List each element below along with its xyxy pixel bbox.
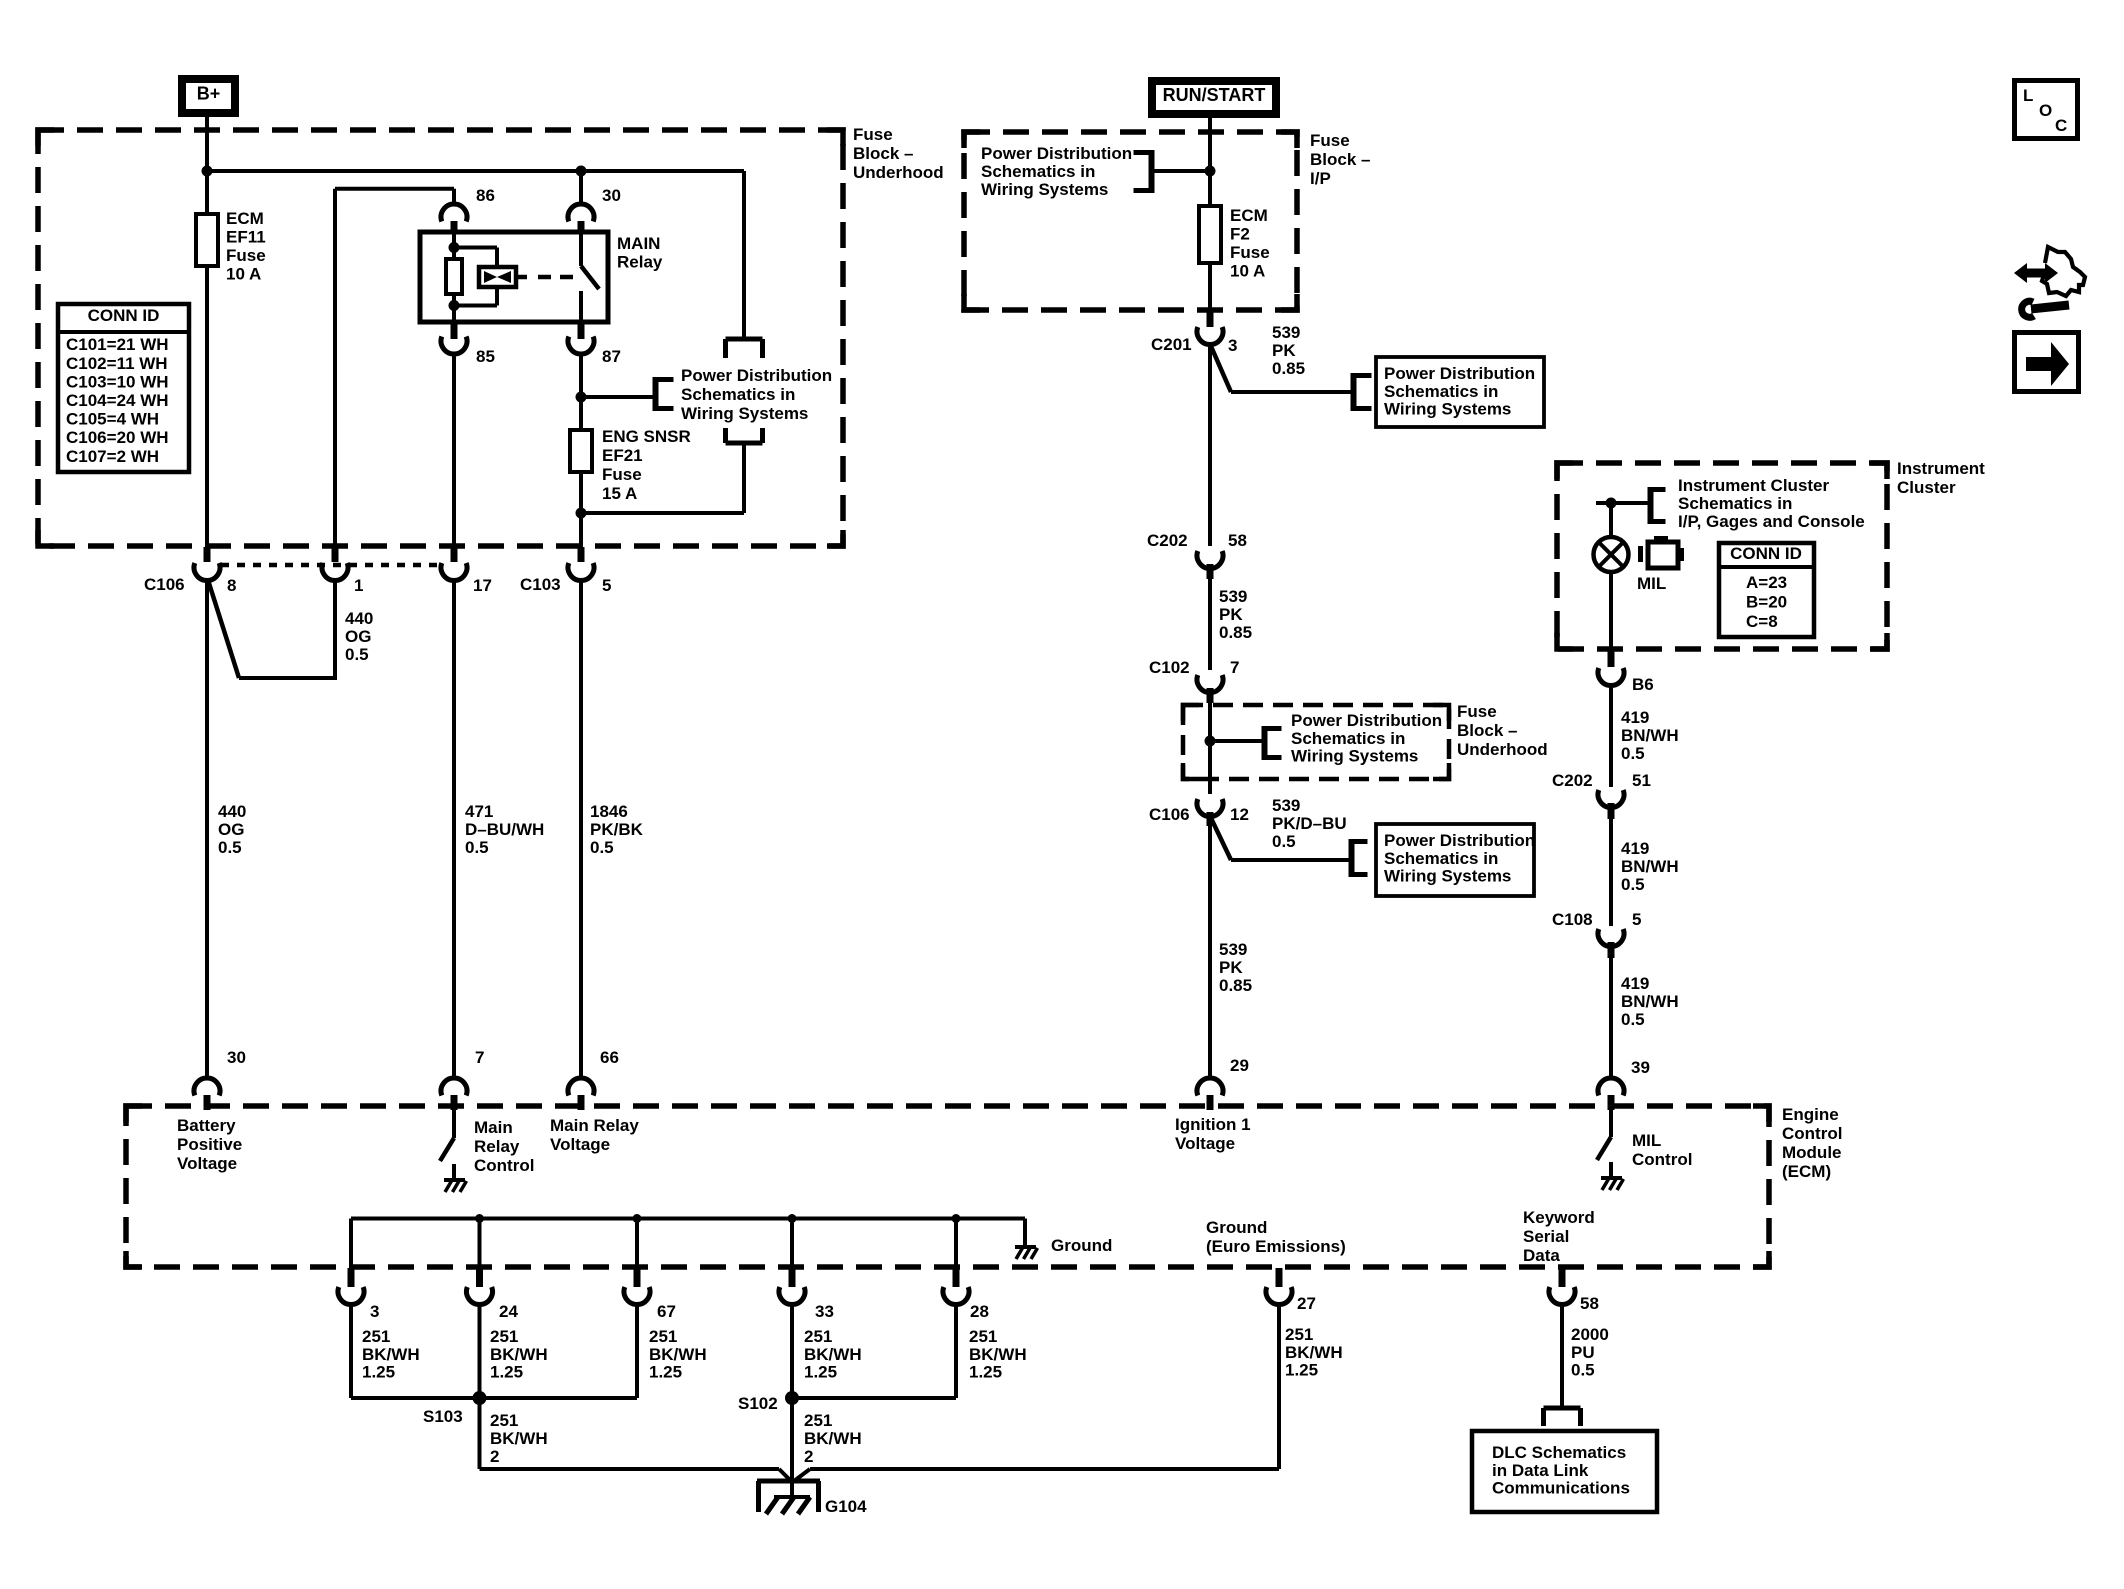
svg-text:30: 30 — [602, 186, 621, 205]
svg-text:C107=2 WH: C107=2 WH — [66, 447, 159, 466]
svg-text:251: 251 — [490, 1327, 518, 1346]
svg-text:C104=24 WH: C104=24 WH — [66, 391, 169, 410]
svg-text:28: 28 — [970, 1302, 989, 1321]
svg-text:PK: PK — [1219, 605, 1243, 624]
svg-text:BK/WH: BK/WH — [490, 1429, 548, 1448]
svg-text:Ground: Ground — [1051, 1236, 1112, 1255]
svg-text:C102=11 WH: C102=11 WH — [66, 354, 168, 373]
svg-text:Module: Module — [1782, 1143, 1842, 1162]
svg-text:BN/WH: BN/WH — [1621, 992, 1679, 1011]
svg-text:539: 539 — [1272, 796, 1300, 815]
svg-text:C103=10 WH: C103=10 WH — [66, 372, 169, 391]
svg-text:Battery: Battery — [177, 1116, 236, 1135]
svg-text:F2: F2 — [1230, 225, 1250, 244]
svg-text:419: 419 — [1621, 708, 1649, 727]
svg-text:S103: S103 — [423, 1407, 463, 1426]
svg-text:Voltage: Voltage — [177, 1154, 237, 1173]
svg-text:L: L — [2023, 86, 2033, 105]
svg-text:C105=4 WH: C105=4 WH — [66, 410, 159, 429]
svg-text:C201: C201 — [1151, 335, 1192, 354]
svg-text:0.5: 0.5 — [345, 645, 369, 664]
svg-text:Serial: Serial — [1523, 1227, 1569, 1246]
svg-text:Schematics in: Schematics in — [1384, 382, 1498, 401]
svg-text:C=8: C=8 — [1746, 612, 1778, 631]
svg-text:251: 251 — [649, 1327, 677, 1346]
svg-text:539: 539 — [1219, 587, 1247, 606]
svg-text:Fuse: Fuse — [1457, 702, 1497, 721]
svg-text:440: 440 — [345, 609, 373, 628]
svg-text:O: O — [2039, 101, 2052, 120]
svg-text:0.5: 0.5 — [1272, 832, 1296, 851]
svg-text:251: 251 — [969, 1327, 997, 1346]
svg-text:Power Distribution: Power Distribution — [1291, 711, 1442, 730]
svg-text:Schematics in: Schematics in — [681, 385, 795, 404]
svg-text:MIL: MIL — [1632, 1131, 1661, 1150]
svg-text:C108: C108 — [1552, 910, 1593, 929]
svg-text:B+: B+ — [197, 84, 221, 104]
svg-text:Ignition 1: Ignition 1 — [1175, 1115, 1251, 1134]
svg-text:Schematics in: Schematics in — [981, 162, 1095, 181]
svg-text:1: 1 — [354, 576, 363, 595]
svg-text:12: 12 — [1230, 805, 1249, 824]
svg-text:5: 5 — [602, 576, 611, 595]
svg-text:BK/WH: BK/WH — [490, 1345, 548, 1364]
svg-text:86: 86 — [476, 186, 495, 205]
svg-text:D–BU/WH: D–BU/WH — [465, 820, 544, 839]
svg-text:C202: C202 — [1552, 771, 1593, 790]
svg-text:Fuse: Fuse — [1230, 243, 1270, 262]
svg-text:Positive: Positive — [177, 1135, 242, 1154]
svg-text:Voltage: Voltage — [1175, 1134, 1235, 1153]
svg-text:2: 2 — [490, 1447, 499, 1466]
svg-text:27: 27 — [1297, 1294, 1316, 1313]
svg-text:Wiring Systems: Wiring Systems — [981, 180, 1108, 199]
svg-text:33: 33 — [815, 1302, 834, 1321]
svg-text:7: 7 — [475, 1048, 484, 1067]
svg-text:OG: OG — [218, 820, 244, 839]
svg-text:85: 85 — [476, 347, 495, 366]
svg-text:C106=20 WH: C106=20 WH — [66, 428, 169, 447]
svg-text:ECM: ECM — [1230, 206, 1268, 225]
svg-text:Schematics in: Schematics in — [1291, 729, 1405, 748]
svg-text:MIL: MIL — [1637, 574, 1666, 593]
svg-text:Control: Control — [1782, 1124, 1842, 1143]
svg-text:30: 30 — [227, 1048, 246, 1067]
svg-text:0.5: 0.5 — [590, 838, 614, 857]
svg-text:CONN ID: CONN ID — [1730, 544, 1802, 563]
svg-text:419: 419 — [1621, 839, 1649, 858]
svg-text:PU: PU — [1571, 1343, 1595, 1362]
svg-text:in Data Link: in Data Link — [1492, 1461, 1589, 1480]
svg-text:1.25: 1.25 — [362, 1362, 395, 1381]
svg-text:BN/WH: BN/WH — [1621, 726, 1679, 745]
svg-text:ECM: ECM — [226, 209, 264, 228]
svg-text:Power Distribution: Power Distribution — [1384, 364, 1535, 383]
svg-text:1846: 1846 — [590, 802, 628, 821]
svg-text:Ground: Ground — [1206, 1218, 1267, 1237]
svg-text:Wiring Systems: Wiring Systems — [1384, 399, 1511, 418]
svg-text:Block –: Block – — [853, 144, 913, 163]
svg-text:Block –: Block – — [1457, 721, 1517, 740]
svg-text:Main: Main — [474, 1118, 513, 1137]
svg-text:0.85: 0.85 — [1272, 359, 1305, 378]
svg-text:251: 251 — [804, 1411, 832, 1430]
svg-text:Power Distribution: Power Distribution — [981, 144, 1132, 163]
svg-text:RUN/START: RUN/START — [1163, 85, 1266, 105]
svg-text:67: 67 — [657, 1302, 676, 1321]
svg-text:G104: G104 — [825, 1497, 867, 1516]
svg-text:0.5: 0.5 — [1621, 875, 1645, 894]
svg-text:251: 251 — [362, 1327, 390, 1346]
svg-text:Block –: Block – — [1310, 150, 1370, 169]
svg-text:C102: C102 — [1149, 658, 1190, 677]
svg-text:CONN ID: CONN ID — [88, 306, 160, 325]
svg-text:539: 539 — [1219, 940, 1247, 959]
svg-text:1.25: 1.25 — [969, 1362, 1002, 1381]
svg-text:0.5: 0.5 — [1621, 1010, 1645, 1029]
svg-text:Instrument Cluster: Instrument Cluster — [1678, 476, 1830, 495]
svg-text:Fuse: Fuse — [602, 465, 642, 484]
svg-text:Schematics in: Schematics in — [1384, 849, 1498, 868]
svg-text:1.25: 1.25 — [804, 1362, 837, 1381]
svg-text:Control: Control — [1632, 1150, 1692, 1169]
svg-text:Keyword: Keyword — [1523, 1208, 1595, 1227]
svg-text:17: 17 — [473, 576, 492, 595]
svg-text:Data: Data — [1523, 1246, 1560, 1265]
svg-text:2: 2 — [804, 1447, 813, 1466]
svg-text:C101=21 WH: C101=21 WH — [66, 335, 169, 354]
svg-text:251: 251 — [1285, 1325, 1313, 1344]
svg-text:EF21: EF21 — [602, 446, 643, 465]
svg-text:539: 539 — [1272, 323, 1300, 342]
svg-text:(Euro Emissions): (Euro Emissions) — [1206, 1237, 1346, 1256]
svg-text:87: 87 — [602, 347, 621, 366]
svg-text:58: 58 — [1580, 1294, 1599, 1313]
svg-text:BK/WH: BK/WH — [1285, 1343, 1343, 1362]
svg-text:0.5: 0.5 — [465, 838, 489, 857]
svg-text:Power Distribution: Power Distribution — [681, 366, 832, 385]
svg-text:I/P, Gages and Console: I/P, Gages and Console — [1678, 512, 1865, 531]
svg-text:0.85: 0.85 — [1219, 623, 1252, 642]
svg-text:C202: C202 — [1147, 531, 1188, 550]
svg-text:ENG SNSR: ENG SNSR — [602, 427, 691, 446]
svg-text:2000: 2000 — [1571, 1325, 1609, 1344]
svg-text:440: 440 — [218, 802, 246, 821]
svg-text:66: 66 — [600, 1048, 619, 1067]
svg-text:BK/WH: BK/WH — [649, 1345, 707, 1364]
svg-text:Engine: Engine — [1782, 1105, 1839, 1124]
svg-text:471: 471 — [465, 802, 493, 821]
svg-text:39: 39 — [1631, 1058, 1650, 1077]
svg-text:3: 3 — [370, 1302, 379, 1321]
svg-text:1.25: 1.25 — [1285, 1360, 1318, 1379]
svg-text:OG: OG — [345, 627, 371, 646]
svg-text:Underhood: Underhood — [1457, 740, 1548, 759]
svg-text:B=20: B=20 — [1746, 593, 1787, 612]
svg-text:Underhood: Underhood — [853, 163, 944, 182]
svg-text:3: 3 — [1228, 336, 1237, 355]
svg-text:BK/WH: BK/WH — [969, 1345, 1027, 1364]
svg-text:24: 24 — [499, 1302, 518, 1321]
svg-text:BK/WH: BK/WH — [804, 1345, 862, 1364]
svg-text:BN/WH: BN/WH — [1621, 857, 1679, 876]
svg-text:EF11: EF11 — [226, 228, 266, 247]
svg-text:Voltage: Voltage — [550, 1135, 610, 1154]
svg-text:B6: B6 — [1632, 675, 1654, 694]
svg-text:5: 5 — [1632, 910, 1641, 929]
svg-text:Wiring Systems: Wiring Systems — [1384, 866, 1511, 885]
svg-text:10 A: 10 A — [1230, 262, 1265, 281]
svg-text:8: 8 — [227, 576, 236, 595]
svg-text:PK: PK — [1219, 958, 1243, 977]
svg-text:51: 51 — [1632, 771, 1651, 790]
svg-text:S102: S102 — [738, 1394, 778, 1413]
svg-text:I/P: I/P — [1310, 169, 1331, 188]
svg-text:251: 251 — [490, 1411, 518, 1430]
svg-text:0.5: 0.5 — [1571, 1360, 1595, 1379]
svg-text:Fuse: Fuse — [853, 125, 893, 144]
svg-text:PK: PK — [1272, 341, 1296, 360]
svg-text:Schematics in: Schematics in — [1678, 494, 1792, 513]
svg-text:BK/WH: BK/WH — [362, 1345, 420, 1364]
svg-text:Instrument: Instrument — [1897, 459, 1985, 478]
svg-text:0.5: 0.5 — [1621, 744, 1645, 763]
svg-text:(ECM): (ECM) — [1782, 1162, 1831, 1181]
svg-text:MAIN: MAIN — [617, 234, 660, 253]
svg-text:1.25: 1.25 — [490, 1362, 523, 1381]
svg-text:Main Relay: Main Relay — [550, 1116, 639, 1135]
svg-text:DLC Schematics: DLC Schematics — [1492, 1443, 1626, 1462]
svg-text:Relay: Relay — [474, 1137, 520, 1156]
svg-text:C: C — [2055, 116, 2067, 135]
svg-text:1.25: 1.25 — [649, 1362, 682, 1381]
svg-text:BK/WH: BK/WH — [804, 1429, 862, 1448]
svg-text:C103: C103 — [520, 575, 561, 594]
svg-text:15 A: 15 A — [602, 484, 637, 503]
svg-text:Cluster: Cluster — [1897, 478, 1956, 497]
svg-text:Control: Control — [474, 1156, 534, 1175]
svg-text:Communications: Communications — [1492, 1478, 1630, 1497]
svg-text:58: 58 — [1228, 531, 1247, 550]
svg-text:10 A: 10 A — [226, 265, 261, 284]
svg-text:419: 419 — [1621, 974, 1649, 993]
svg-text:Wiring Systems: Wiring Systems — [1291, 746, 1418, 765]
svg-text:Relay: Relay — [617, 253, 663, 272]
svg-text:Power Distribution: Power Distribution — [1384, 831, 1535, 850]
svg-text:Fuse: Fuse — [226, 246, 266, 265]
svg-text:C106: C106 — [1149, 805, 1190, 824]
svg-text:0.5: 0.5 — [218, 838, 242, 857]
svg-text:7: 7 — [1230, 658, 1239, 677]
svg-text:Wiring Systems: Wiring Systems — [681, 404, 808, 423]
svg-text:0.85: 0.85 — [1219, 976, 1252, 995]
svg-text:PK/D–BU: PK/D–BU — [1272, 814, 1347, 833]
svg-text:251: 251 — [804, 1327, 832, 1346]
svg-text:A=23: A=23 — [1746, 573, 1787, 592]
svg-text:29: 29 — [1230, 1056, 1249, 1075]
svg-text:C106: C106 — [144, 575, 185, 594]
svg-text:Fuse: Fuse — [1310, 131, 1350, 150]
svg-text:PK/BK: PK/BK — [590, 820, 644, 839]
